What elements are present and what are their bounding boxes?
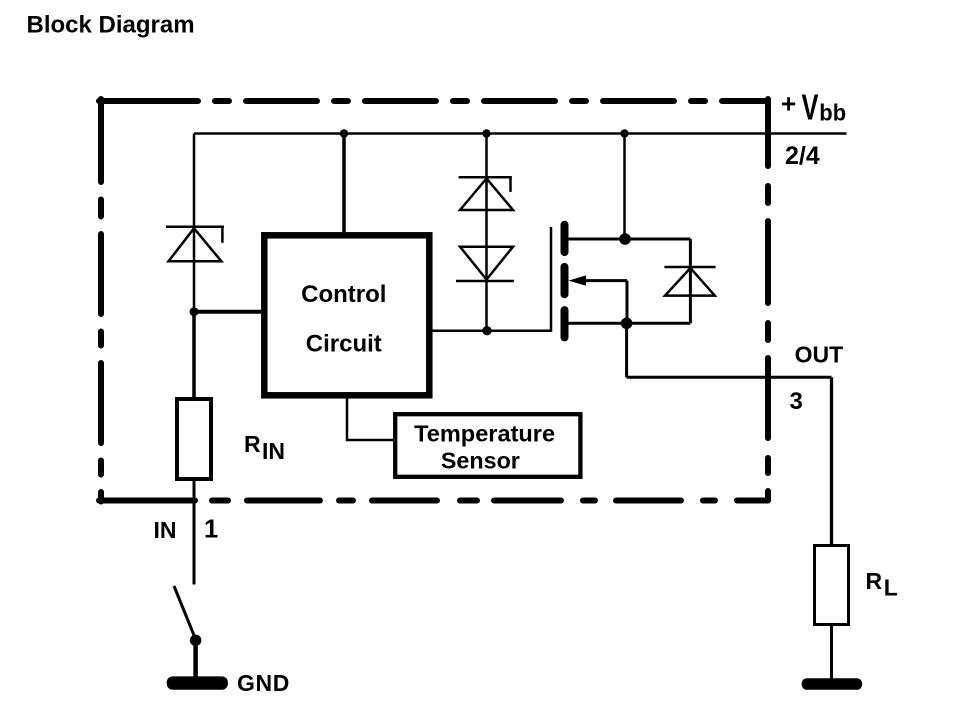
svg-text:OUT: OUT [795,342,844,368]
svg-text:GND: GND [237,670,290,696]
svg-text:1: 1 [204,515,218,543]
wire: rail to control circuit [342,134,346,233]
node: rail junction at gate clamp [482,129,490,137]
IC boundary (dashed box) [99,99,770,502]
wire: control circuit to temperature sensor [347,399,393,441]
diode D3 [456,247,514,281]
control circuit block U1 [264,235,429,395]
zener diode D2 [459,177,513,210]
svg-text:Control: Control [301,281,386,308]
zener diode D1 [166,227,224,261]
temperature sensor block [395,414,580,477]
MOSFET Q1 channel bars [561,225,569,338]
svg-text:L: L [884,574,898,600]
svg-text:Temperature: Temperature [414,420,555,446]
wire: node A to RIN [192,312,196,397]
MOSFET Q1 body arrow [569,275,587,285]
MOSFET Q1 gate line [550,227,553,332]
ground (left) [167,676,228,689]
svg-text:R: R [866,568,883,594]
node B gate junction dot [482,326,491,335]
wire: control circuit to gate [433,329,552,332]
node A junction dot [190,307,199,316]
resistor RL [815,546,849,625]
svg-text:V: V [802,87,819,128]
ground (right) [802,678,863,690]
node: rail junction at control circuit [340,129,348,137]
wire: +Vbb supply rail [194,132,847,135]
node: rail junction at drain [620,129,628,137]
diode D4 (body diode) [664,239,715,323]
svg-text:2/4: 2/4 [785,142,820,170]
wire: drain stub to node C [569,238,691,241]
svg-text:IN: IN [262,438,285,464]
svg-text:IN: IN [154,517,177,543]
wire: switch to ground [193,640,198,676]
wire: RIN to switch [193,479,196,585]
wire: rail to zener D2 [485,134,488,331]
wire: node A to control circuit [194,310,261,314]
svg-text:Block Diagram: Block Diagram [27,12,195,39]
svg-text:Circuit: Circuit [306,331,382,358]
wire: rail to zener D1 [193,134,196,312]
node D source junction dot [621,318,633,330]
resistor RIN [177,399,211,479]
wire: source stub [569,322,691,325]
svg-text:3: 3 [790,388,803,415]
svg-text:Sensor: Sensor [441,448,520,474]
svg-text:bb: bb [819,100,846,126]
node C drain junction dot [619,233,631,245]
svg-text:R: R [244,431,261,457]
wire: source to OUT [625,323,628,377]
svg-text:+: + [781,89,796,119]
wire: rail to drain [623,134,626,240]
wire: RL to ground [830,625,833,679]
switch S1 [174,586,196,640]
